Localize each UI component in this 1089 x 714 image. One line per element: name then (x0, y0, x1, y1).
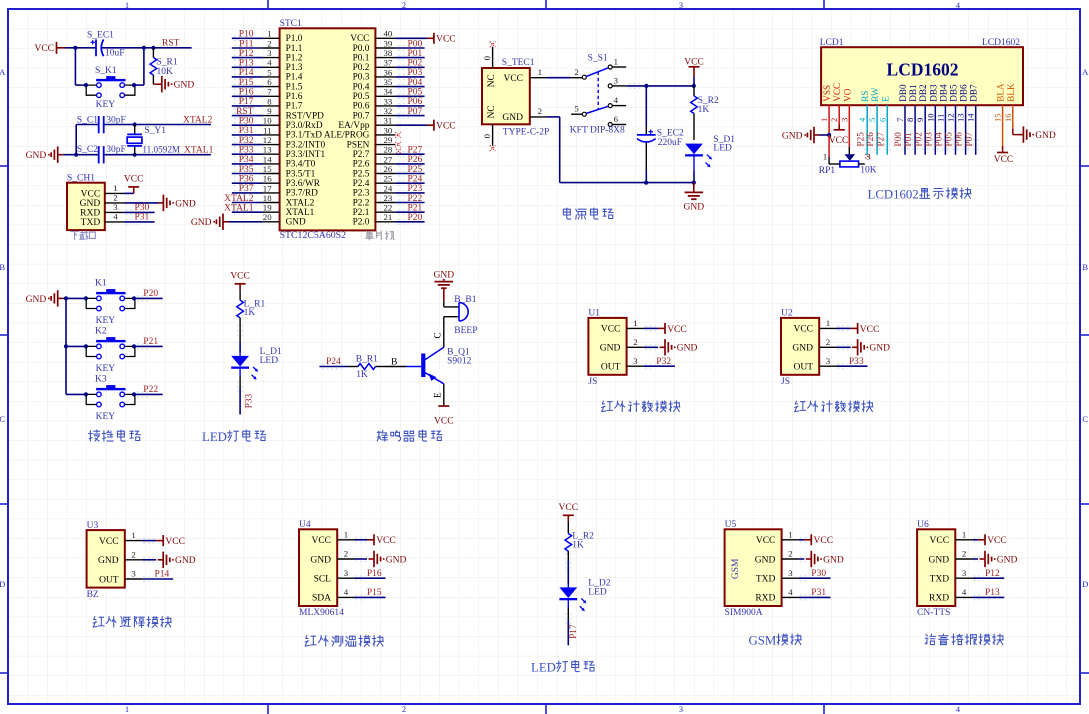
wire net P01 (LCD pin) (903, 105, 917, 155)
svg-text:C: C (433, 332, 443, 338)
svg-text:1K: 1K (356, 370, 368, 380)
svg-text:P21: P21 (408, 204, 423, 214)
svg-text:11.0592M: 11.0592M (142, 144, 180, 154)
svg-text:2: 2 (962, 549, 966, 559)
wire TEC1 VCC to switch (547, 77, 571, 79)
svg-text:4: 4 (962, 587, 967, 597)
pin 1 VCC of U1 (601, 318, 644, 335)
svg-text:P07: P07 (964, 132, 974, 147)
svg-text:P3.2/INT0: P3.2/INT0 (286, 140, 326, 150)
svg-text:1: 1 (788, 529, 792, 539)
title LED circuit 2 (531, 661, 595, 675)
svg-text:P33: P33 (239, 146, 254, 156)
svg-text:P07: P07 (408, 107, 423, 117)
svg-text:PSEN: PSEN (347, 140, 370, 150)
svg-text:1: 1 (826, 318, 830, 328)
pin 1 VCC of S_TEC1 (530, 67, 547, 78)
svg-text:P1.0: P1.0 (286, 34, 303, 44)
svg-text:3: 3 (826, 356, 831, 366)
svg-text:3: 3 (113, 202, 118, 212)
switch K2 KEY (84, 327, 136, 374)
svg-text:K1: K1 (95, 279, 107, 289)
pin 35 P0.4 of STC1 (353, 77, 396, 92)
svg-text:BLK: BLK (1006, 83, 1016, 102)
wire net P13 (U6) (973, 588, 1005, 600)
svg-text:1: 1 (614, 57, 618, 67)
svg-text:GND: GND (782, 131, 803, 141)
pin 13 P3.3/INT1 of STC1 (263, 145, 326, 160)
svg-text:5: 5 (267, 67, 272, 77)
wire base B (385, 358, 406, 368)
svg-text:GND: GND (26, 295, 47, 305)
svg-text:P2.6: P2.6 (353, 160, 370, 170)
svg-text:GND: GND (98, 556, 119, 566)
svg-text:P0.2: P0.2 (353, 63, 370, 73)
wire net P12 (U6) (973, 569, 1005, 581)
svg-text:S_C2: S_C2 (77, 145, 98, 155)
svg-text:XTAL1: XTAL1 (184, 145, 214, 155)
svg-text:P34: P34 (239, 155, 254, 165)
svg-text:21: 21 (384, 212, 393, 222)
svg-text:1: 1 (125, 1, 129, 10)
svg-text:VCC: VCC (436, 122, 456, 132)
wire reset left branch down (75, 48, 86, 85)
svg-text:P06: P06 (408, 97, 423, 107)
svg-text:S_K1: S_K1 (95, 66, 117, 76)
svg-text:P03: P03 (408, 68, 423, 78)
wire net P17 (LED2) (566, 608, 578, 646)
power port VCC (STC1 pin 31) (395, 120, 455, 132)
wire net RST (STC1 left pin 9) (232, 107, 263, 118)
wire net P11 (STC1 left pin 2) (232, 39, 263, 50)
switch K1 KEY (84, 279, 136, 326)
pin 1 VCC of U5 (756, 529, 799, 546)
wire net P23 (STC1 right pin 24) (395, 184, 424, 195)
svg-text:GND: GND (386, 555, 407, 565)
title GSM module (749, 634, 802, 648)
ground GND (STC1 pin20) (191, 214, 263, 230)
pin 3 P1.2 of STC1 (263, 48, 303, 63)
svg-text:GND: GND (434, 270, 455, 280)
svg-text:P03: P03 (923, 132, 933, 147)
svg-text:P25: P25 (855, 132, 865, 147)
title IR obstacle module (93, 617, 171, 628)
pin 10 DB3 of LCD1 (925, 84, 938, 122)
connector S_CH1 (67, 174, 105, 231)
svg-text:S_Y1: S_Y1 (144, 126, 166, 136)
svg-text:3: 3 (633, 356, 638, 366)
svg-text:DB6: DB6 (959, 84, 969, 102)
svg-text:10uF: 10uF (105, 48, 125, 58)
wire net P14 (U3) (142, 570, 173, 582)
pin 28 P2.7 of STC1 (353, 145, 396, 160)
svg-text:P15: P15 (239, 78, 254, 88)
power port VCC (LED1) (230, 271, 250, 290)
pin bottom 0 of S_TEC1 (482, 124, 496, 151)
no-connect marker pin 28 start (396, 149, 400, 153)
svg-text:C: C (1082, 414, 1088, 424)
pin 27 P2.6 of STC1 (353, 154, 396, 169)
svg-text:P30: P30 (135, 203, 150, 213)
svg-text:VCC: VCC (376, 536, 396, 546)
wire net P06 (STC1 right pin 33) (395, 97, 424, 108)
no-connect marker pin 30 (395, 132, 401, 138)
title IR counter module 2 (795, 401, 873, 412)
svg-text:12: 12 (946, 113, 956, 122)
svg-text:1K: 1K (244, 308, 256, 318)
svg-text:VCC: VCC (559, 503, 579, 513)
svg-text:P21: P21 (143, 337, 158, 347)
net label RST (162, 38, 180, 48)
svg-text:VSS: VSS (822, 85, 832, 102)
svg-text:P3.6/WR: P3.6/WR (286, 179, 321, 189)
svg-text:P22: P22 (408, 194, 423, 204)
label STC12C5A60S2 (280, 230, 347, 241)
svg-text:P0.3: P0.3 (353, 73, 370, 83)
svg-text:LCD1602: LCD1602 (868, 187, 919, 201)
wire net P21 (STC1 right pin 22) (395, 204, 424, 215)
pin 2 GND of S_TEC1 (530, 106, 547, 117)
switch K3 KEY (84, 375, 136, 422)
wire VCC to RST line (65, 47, 192, 49)
pin 1 P1.0 of STC1 (263, 29, 303, 44)
svg-text:SCL: SCL (314, 575, 332, 585)
svg-text:P31: P31 (135, 213, 150, 223)
svg-text:P2.3: P2.3 (353, 189, 370, 199)
pin 3 OUT of U1 (601, 356, 644, 373)
ground GND (U1) (644, 339, 698, 355)
svg-text:20: 20 (263, 212, 272, 222)
ground GND (reset) (153, 76, 194, 92)
LED L_D2 (559, 579, 610, 612)
svg-text:E: E (433, 392, 443, 398)
svg-text:VCC: VCC (601, 325, 621, 335)
svg-text:32: 32 (384, 106, 393, 116)
svg-text:VCC: VCC (99, 537, 119, 547)
svg-text:P26: P26 (865, 132, 875, 147)
wire net P22 (key K3) (134, 385, 163, 397)
pin 25 P2.4 of STC1 (353, 174, 396, 189)
pin 2 VCC of LCD1 (829, 83, 842, 122)
svg-text:DB1: DB1 (908, 84, 918, 102)
pin 8 P1.7 of STC1 (263, 96, 303, 111)
net label XTAL2 (crystal) (183, 115, 213, 125)
svg-text:3: 3 (962, 568, 967, 578)
label MCU (chinese) (365, 231, 394, 240)
svg-text:S_EC1: S_EC1 (87, 30, 114, 40)
svg-text:39: 39 (384, 38, 393, 48)
ground GND (keys) (26, 290, 64, 306)
svg-text:JS: JS (588, 377, 597, 387)
pin 36 P0.3 of STC1 (353, 67, 396, 82)
pin top 0 of S_TEC1 (482, 42, 496, 69)
svg-text:DB7: DB7 (969, 84, 979, 102)
pin 1 VSS of LCD1 (819, 85, 832, 122)
svg-text:BEEP: BEEP (454, 326, 477, 336)
pin 1 VCC of U2 (793, 318, 836, 335)
svg-text:P25: P25 (408, 165, 423, 175)
pin 3 SCL of U4 (314, 568, 355, 585)
wire net P02 (STC1 right pin 37) (395, 59, 424, 70)
power port VCC (STC1 pin 40) (395, 33, 455, 45)
ground GND (crystal) (26, 147, 64, 163)
svg-text:P1.6: P1.6 (286, 92, 303, 102)
svg-text:GND: GND (1035, 131, 1056, 141)
svg-text:LED: LED (531, 661, 556, 675)
wire crystal gnd (63, 154, 98, 156)
svg-text:VCC: VCC (667, 325, 687, 335)
svg-text:EA/Vpp: EA/Vpp (338, 121, 369, 131)
pin 4 SDA of U4 (312, 587, 355, 604)
pin 13 DB6 of LCD1 (956, 84, 969, 122)
svg-text:VCC: VCC (994, 155, 1014, 165)
wire net XTAL2 (STC1 left pin 18) (224, 194, 262, 205)
power port VCC (buzzer) (434, 405, 454, 427)
pin 5 P1.4 of STC1 (263, 67, 303, 82)
pin 2 GND of U2 (792, 337, 836, 354)
svg-text:P3.4/T0: P3.4/T0 (286, 160, 316, 170)
svg-text:4: 4 (614, 95, 619, 105)
svg-text:37: 37 (384, 58, 393, 68)
svg-text:2: 2 (267, 38, 271, 48)
svg-text:4: 4 (344, 587, 349, 597)
wire net P16 (STC1 left pin 7) (232, 88, 263, 99)
svg-text:4: 4 (267, 58, 272, 68)
wire net P04 (LCD pin) (934, 105, 948, 155)
svg-text:DB4: DB4 (938, 84, 948, 102)
svg-text:1: 1 (538, 67, 542, 77)
wire net P03 (LCD pin) (923, 105, 937, 155)
svg-text:10K: 10K (860, 165, 877, 175)
svg-text:4: 4 (956, 1, 960, 10)
svg-text:10: 10 (925, 113, 935, 122)
pin 37 P0.2 of STC1 (353, 58, 396, 73)
transistor B_Q1 S9012 (406, 332, 472, 398)
svg-text:P13: P13 (239, 59, 254, 69)
svg-text:P17: P17 (239, 97, 254, 107)
IC U4 (MLX90614) (299, 520, 344, 618)
pin 3 OUT of U2 (793, 356, 836, 373)
svg-text:B_R1: B_R1 (356, 355, 378, 365)
pin 26 P2.5 of STC1 (353, 164, 396, 179)
wire net P26 (LCD pin) (865, 105, 879, 155)
wire reset right branch down (134, 48, 144, 85)
svg-text:P14: P14 (155, 570, 170, 580)
svg-text:S_TEC1: S_TEC1 (502, 58, 535, 68)
wire net P17 (STC1 left pin 8) (232, 97, 263, 108)
svg-text:3: 3 (788, 568, 793, 578)
pin 33 P0.6 of STC1 (353, 96, 396, 111)
svg-text:GND: GND (929, 555, 950, 565)
pin 4 RS of LCD1 (857, 91, 870, 122)
svg-text:P05: P05 (944, 132, 954, 147)
wire net P16 (U4) (355, 569, 386, 581)
wire VCC pin2 to port (829, 105, 849, 146)
wire net P26 (STC1 right pin 27) (395, 155, 424, 166)
svg-text:GND: GND (755, 555, 776, 565)
svg-text:GSM: GSM (749, 634, 777, 648)
svg-text:1: 1 (344, 529, 348, 539)
svg-text:S9012: S9012 (447, 356, 472, 366)
wire net P32 (U1) (644, 357, 675, 369)
wire net P36 (STC1 left pin 16) (232, 175, 263, 186)
wire net P03 (STC1 right pin 36) (395, 68, 424, 79)
svg-text:K2: K2 (95, 327, 107, 337)
svg-text:RST/VPD: RST/VPD (286, 111, 325, 121)
wire L_R1 to L_D1 (238, 324, 243, 353)
svg-text:3: 3 (679, 705, 683, 714)
wire net P27 (LCD pin) (875, 105, 889, 155)
IC U6 (CN-TTS) (917, 520, 955, 618)
switch S_K1 KEY (84, 66, 136, 110)
svg-text:GND: GND (175, 556, 196, 566)
svg-text:1: 1 (125, 705, 129, 714)
svg-text:P14: P14 (239, 68, 254, 78)
svg-text:P33: P33 (243, 393, 253, 408)
svg-text:P13: P13 (985, 588, 1000, 598)
svg-text:P0.0: P0.0 (353, 44, 370, 54)
svg-text:VCC: VCC (756, 536, 776, 546)
pin 6 P1.5 of STC1 (263, 77, 303, 92)
svg-text:NC: NC (487, 105, 497, 118)
svg-text:P2.0: P2.0 (353, 218, 370, 228)
svg-text:RS: RS (860, 91, 870, 102)
svg-text:9: 9 (267, 106, 272, 116)
svg-text:12: 12 (263, 135, 272, 145)
capacitor S_EC2 220uF (637, 86, 684, 183)
ground GND (U6) (973, 551, 1018, 567)
wire net P34 (STC1 left pin 14) (232, 155, 263, 166)
title IR counter module 1 (602, 401, 680, 412)
pin 2 GND of U3 (98, 549, 142, 566)
svg-text:D: D (1082, 579, 1088, 589)
svg-text:P27: P27 (875, 132, 885, 147)
svg-text:P17: P17 (568, 624, 578, 639)
net label P24 wire (319, 357, 348, 369)
title key circuit (89, 430, 141, 441)
svg-text:VCC: VCC (81, 190, 101, 200)
svg-text:31: 31 (384, 116, 393, 126)
pin 4 P1.3 of STC1 (263, 58, 303, 73)
svg-text:GSM: GSM (731, 558, 741, 579)
svg-text:7: 7 (267, 87, 272, 97)
svg-text:P3.3/INT1: P3.3/INT1 (286, 150, 326, 160)
svg-text:P1.1: P1.1 (286, 44, 303, 54)
svg-text:LED: LED (260, 356, 279, 366)
svg-text:P1.3: P1.3 (286, 63, 303, 73)
svg-text:0: 0 (482, 55, 492, 60)
wire net P21 (key K2) (134, 337, 163, 349)
svg-text:P23: P23 (408, 184, 423, 194)
svg-text:TXD: TXD (756, 575, 776, 585)
svg-text:P0.1: P0.1 (353, 53, 370, 63)
resistor S_R1 10K (150, 48, 178, 84)
potentiometer RP1 10K (819, 135, 877, 176)
pin 15 BLA of LCD1 (993, 83, 1006, 122)
IC U1 (JS) (588, 309, 626, 387)
pin 16 BLK of LCD1 (1003, 83, 1016, 122)
svg-text:A: A (0, 67, 6, 77)
pin 4 RXD of U5 (755, 587, 799, 604)
svg-text:3: 3 (614, 76, 619, 86)
svg-text:4: 4 (113, 212, 118, 222)
svg-text:9: 9 (915, 118, 925, 122)
svg-text:GND: GND (191, 218, 212, 228)
svg-text:GND: GND (174, 81, 195, 91)
svg-text:2: 2 (113, 193, 117, 203)
svg-text:3: 3 (839, 118, 849, 122)
svg-text:P36: P36 (239, 175, 254, 185)
svg-text:38: 38 (384, 48, 393, 58)
pin 1 VCC of U6 (930, 529, 973, 546)
svg-text:0: 0 (482, 133, 492, 138)
wire net P12 (STC1 left pin 3) (232, 49, 263, 60)
svg-text:1K: 1K (698, 105, 710, 115)
svg-text:GND: GND (26, 151, 47, 161)
pin 17 P3.7/RD of STC1 (263, 183, 319, 198)
svg-text:19: 19 (263, 203, 272, 213)
svg-text:DB0: DB0 (898, 84, 908, 102)
IC LCD1602 type label (982, 38, 1020, 48)
svg-text:2: 2 (538, 106, 542, 116)
title IR temperature module (305, 636, 383, 647)
svg-text:30pF: 30pF (106, 145, 126, 155)
wire net P35 (STC1 left pin 15) (232, 165, 263, 176)
wire net P25 (LCD pin) (855, 105, 869, 155)
svg-text:GND: GND (684, 203, 705, 213)
svg-text:VO: VO (842, 88, 852, 102)
pin 31 EA/Vpp of STC1 (338, 116, 395, 131)
svg-text:24: 24 (384, 183, 393, 193)
pin 2 GND of U5 (755, 549, 799, 566)
power port VCC (S_CH1) (124, 174, 144, 193)
pin 15 P3.5/T1 of STC1 (263, 164, 316, 179)
svg-text:D: D (0, 579, 5, 589)
svg-text:34: 34 (384, 87, 393, 97)
wire switch pin3 to VCC rail (626, 84, 696, 89)
pin 32 P0.7 of STC1 (353, 106, 396, 121)
svg-text:RW: RW (870, 87, 880, 102)
svg-text:P0.6: P0.6 (353, 102, 370, 112)
svg-text:P06: P06 (954, 132, 964, 147)
wire net P20 (key K1) (134, 289, 163, 301)
svg-text:P33: P33 (849, 357, 864, 367)
svg-text:P20: P20 (143, 289, 158, 299)
pin 38 P0.1 of STC1 (353, 48, 396, 63)
svg-text:RST: RST (236, 107, 254, 117)
wire net P32 (STC1 left pin 12) (232, 136, 263, 147)
ground GND (S_CH1) (124, 195, 196, 211)
svg-text:14: 14 (263, 154, 272, 164)
ground GND (U3) (142, 552, 196, 568)
wire net P05 (LCD pin) (944, 105, 958, 155)
svg-text:GND: GND (997, 555, 1018, 565)
svg-text:25: 25 (384, 174, 393, 184)
svg-text:ALE/PROG: ALE/PROG (324, 131, 370, 141)
svg-text:B: B (1082, 262, 1088, 272)
svg-text:P16: P16 (367, 569, 382, 579)
svg-text:KEY: KEY (96, 412, 116, 422)
wire net P00 (STC1 right pin 39) (395, 39, 424, 50)
svg-text:GND: GND (677, 344, 698, 354)
svg-text:P3.1/TxD: P3.1/TxD (286, 131, 323, 141)
svg-text:6: 6 (877, 117, 887, 122)
svg-text:P32: P32 (239, 136, 254, 146)
wire XTAL1 (104, 153, 211, 157)
svg-text:VCC: VCC (350, 34, 369, 44)
wire net P33 (LED1) (238, 376, 254, 415)
svg-text:CN-TTS: CN-TTS (917, 608, 950, 618)
